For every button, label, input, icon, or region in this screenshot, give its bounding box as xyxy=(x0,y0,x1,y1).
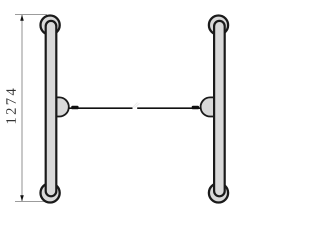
right cable bracket xyxy=(201,97,215,116)
dimension label 1274 xyxy=(6,89,16,124)
cable right segment xyxy=(137,107,201,109)
right pole xyxy=(214,21,225,196)
left pole xyxy=(46,21,57,196)
right cable connector xyxy=(192,106,199,110)
dimension arrow down xyxy=(20,195,24,201)
cable break mark xyxy=(133,103,140,108)
cable left segment xyxy=(69,107,133,109)
left cable connector xyxy=(71,106,78,110)
right pole top cap xyxy=(209,16,228,35)
left cable bracket xyxy=(56,97,69,116)
left pole bottom cap xyxy=(41,183,60,202)
dimension line xyxy=(21,15,23,202)
right pole bottom cap xyxy=(209,183,228,202)
left pole top cap xyxy=(41,16,60,35)
dimension extension line top xyxy=(15,14,47,16)
dimension extension line bottom xyxy=(15,201,47,203)
dimension arrow up xyxy=(20,15,24,21)
